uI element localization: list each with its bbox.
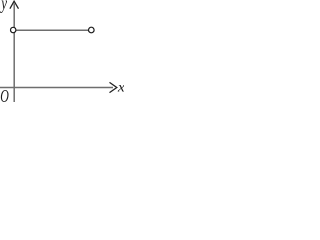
svg-text:O: O: [0, 87, 9, 106]
open endpoint node right: [89, 27, 95, 33]
x-axis arrowhead: [110, 82, 117, 92]
svg-text:y: y: [0, 0, 7, 13]
open endpoint node left: [11, 27, 16, 32]
svg-text:x: x: [117, 80, 124, 95]
segment wire: [16, 29, 88, 31]
x-axis: [0, 87, 113, 89]
y-axis arrowhead: [10, 1, 19, 9]
y-axis: [13, 4, 15, 103]
